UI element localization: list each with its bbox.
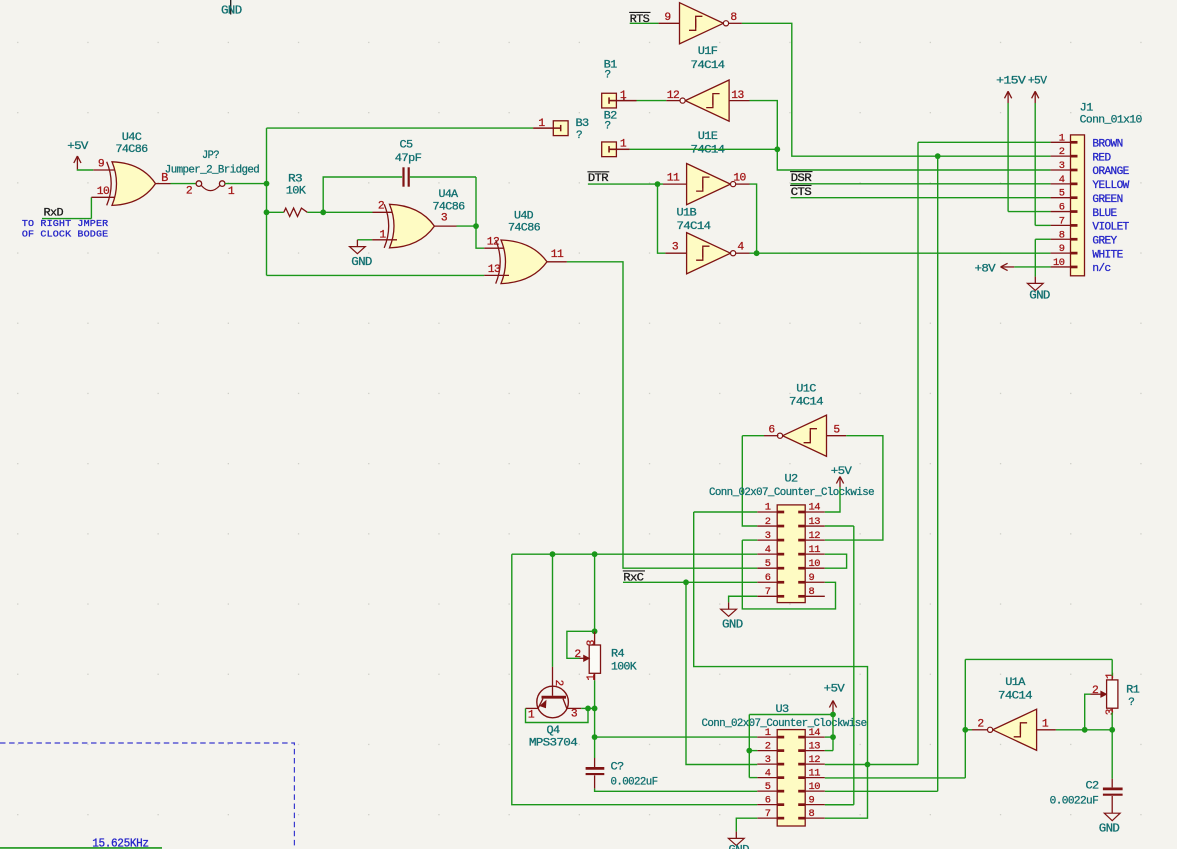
svg-text:?: ? [576, 130, 582, 142]
svg-text:74C86: 74C86 [116, 144, 148, 156]
svg-text:4: 4 [765, 767, 771, 779]
svg-text:10: 10 [733, 173, 746, 185]
svg-text:?: ? [605, 70, 611, 82]
svg-text:C?: C? [611, 761, 624, 773]
svg-text:9: 9 [809, 794, 815, 806]
svg-text:2: 2 [765, 516, 771, 528]
svg-text:+5V: +5V [831, 466, 852, 478]
svg-text:3: 3 [441, 213, 448, 225]
svg-text:U4D: U4D [514, 210, 534, 222]
svg-text:?: ? [605, 120, 611, 132]
svg-text:Conn_02x07_Counter_Clockwise: Conn_02x07_Counter_Clockwise [702, 718, 867, 730]
svg-text:JP?: JP? [202, 150, 219, 162]
svg-text:3: 3 [1105, 709, 1117, 715]
svg-text:RED: RED [1092, 152, 1111, 164]
svg-text:MPS3704: MPS3704 [529, 737, 578, 749]
svg-text:3: 3 [571, 709, 578, 721]
svg-text:9: 9 [98, 159, 104, 171]
svg-text:ORANGE: ORANGE [1092, 166, 1129, 178]
svg-text:3: 3 [765, 530, 771, 542]
svg-text:J1: J1 [1080, 102, 1094, 114]
svg-text:GND: GND [722, 618, 743, 631]
svg-text:2: 2 [378, 201, 384, 213]
svg-text:2: 2 [765, 740, 771, 752]
svg-text:3: 3 [672, 242, 679, 254]
svg-text:3: 3 [765, 754, 771, 766]
svg-text:2: 2 [1092, 685, 1098, 697]
svg-text:U2: U2 [785, 473, 798, 485]
svg-text:2: 2 [186, 185, 192, 197]
svg-text:OF CLOCK BODGE: OF CLOCK BODGE [22, 228, 109, 239]
svg-text:Conn_01x10: Conn_01x10 [1080, 115, 1142, 127]
svg-text:R4: R4 [611, 648, 625, 660]
svg-text:YELLOW: YELLOW [1092, 180, 1129, 192]
svg-text:U1C: U1C [796, 383, 817, 395]
svg-text:GREEN: GREEN [1092, 194, 1122, 206]
svg-text:R1: R1 [1126, 684, 1140, 696]
svg-text:WHITE: WHITE [1092, 249, 1123, 261]
svg-text:7: 7 [765, 586, 771, 598]
svg-text:U1E: U1E [698, 131, 719, 143]
svg-text:1: 1 [765, 502, 771, 514]
svg-text:74C86: 74C86 [433, 201, 465, 213]
svg-text:U1B: U1B [677, 208, 698, 220]
svg-text:GND: GND [351, 256, 372, 269]
svg-text:1: 1 [379, 229, 386, 241]
svg-text:VIOLET: VIOLET [1092, 222, 1129, 234]
svg-text:BROWN: BROWN [1092, 139, 1122, 151]
svg-text:8: 8 [809, 808, 815, 820]
svg-text:11: 11 [667, 173, 680, 185]
svg-text:4: 4 [737, 242, 744, 254]
svg-text:1: 1 [620, 90, 627, 102]
svg-text:74C14: 74C14 [789, 396, 824, 408]
svg-text:C2: C2 [1086, 780, 1099, 792]
svg-text:5: 5 [1059, 188, 1065, 200]
svg-text:+5V: +5V [1028, 75, 1047, 87]
svg-text:7: 7 [1059, 215, 1065, 227]
svg-text:U4A: U4A [439, 189, 459, 201]
svg-text:74C86: 74C86 [508, 222, 540, 234]
svg-text:U1F: U1F [698, 46, 718, 58]
svg-text:GND: GND [728, 844, 749, 849]
svg-text:U4C: U4C [122, 132, 143, 144]
svg-text:12: 12 [667, 90, 680, 102]
svg-text:47pF: 47pF [395, 153, 422, 165]
svg-text:11: 11 [809, 544, 821, 556]
svg-text:2: 2 [574, 649, 580, 661]
svg-text:GND: GND [221, 4, 242, 17]
svg-text:+8V: +8V [975, 263, 996, 275]
svg-text:6: 6 [765, 794, 771, 806]
svg-text:2: 2 [977, 718, 983, 730]
svg-text:1: 1 [1105, 672, 1117, 679]
svg-text:4: 4 [1059, 174, 1065, 186]
svg-text:74C14: 74C14 [691, 60, 726, 72]
svg-text:9: 9 [809, 572, 815, 584]
svg-text:11: 11 [551, 249, 564, 261]
svg-text:1: 1 [1042, 718, 1049, 730]
svg-text:12: 12 [809, 530, 821, 542]
svg-text:GREY: GREY [1092, 235, 1117, 247]
svg-text:3: 3 [1059, 160, 1065, 172]
svg-text:10: 10 [809, 781, 821, 793]
svg-text:10: 10 [1053, 257, 1065, 269]
svg-text:10K: 10K [286, 186, 307, 198]
svg-text:14: 14 [809, 502, 821, 514]
svg-text:9: 9 [664, 12, 670, 24]
svg-text:C5: C5 [400, 140, 413, 152]
svg-text:10: 10 [97, 186, 110, 198]
svg-text:DTR: DTR [588, 173, 609, 185]
svg-text:1: 1 [586, 674, 598, 681]
svg-text:0.0022uF: 0.0022uF [611, 776, 658, 788]
svg-text:11: 11 [809, 767, 821, 779]
svg-text:RTS: RTS [630, 14, 651, 26]
svg-text:9: 9 [1059, 243, 1065, 255]
svg-text:74C14: 74C14 [998, 691, 1033, 703]
svg-text:6: 6 [1059, 202, 1065, 214]
svg-text:1: 1 [228, 186, 235, 198]
svg-text:8: 8 [1059, 229, 1065, 241]
svg-text:13: 13 [809, 516, 821, 528]
svg-text:5: 5 [833, 424, 840, 436]
svg-text:1: 1 [1059, 132, 1065, 144]
svg-text:2: 2 [1059, 146, 1065, 158]
svg-text:13: 13 [809, 740, 821, 752]
svg-text:+15V: +15V [996, 75, 1026, 87]
svg-text:5: 5 [765, 558, 771, 570]
svg-text:12: 12 [809, 754, 821, 766]
svg-text:74C14: 74C14 [691, 145, 726, 157]
svg-text:2: 2 [552, 680, 564, 686]
svg-text:74C14: 74C14 [677, 221, 712, 233]
svg-text:Conn_02x07_Counter_Clockwise: Conn_02x07_Counter_Clockwise [709, 487, 874, 499]
svg-text:?: ? [1128, 697, 1134, 709]
svg-text:+5V: +5V [824, 683, 845, 695]
svg-text:7: 7 [765, 808, 771, 820]
svg-text:GND: GND [1099, 822, 1120, 835]
svg-text:Jumper_2_Bridged: Jumper_2_Bridged [165, 164, 259, 176]
svg-text:6: 6 [765, 572, 771, 584]
svg-text:Q4: Q4 [547, 725, 561, 737]
svg-text:6: 6 [768, 424, 775, 436]
svg-text:U1A: U1A [1005, 677, 1026, 689]
svg-text:8: 8 [730, 12, 737, 24]
svg-text:1: 1 [620, 138, 627, 150]
svg-text:13: 13 [488, 264, 501, 276]
svg-text:10: 10 [809, 558, 821, 570]
svg-text:B3: B3 [576, 118, 589, 130]
svg-text:4: 4 [765, 544, 771, 556]
svg-text:8: 8 [809, 586, 815, 598]
svg-text:1: 1 [538, 118, 545, 130]
svg-text:GND: GND [1029, 289, 1050, 302]
svg-text:100K: 100K [611, 661, 637, 673]
svg-text:BLUE: BLUE [1092, 208, 1117, 220]
svg-text:1: 1 [528, 709, 535, 721]
svg-text:5: 5 [765, 781, 771, 793]
svg-text:+5V: +5V [67, 141, 88, 153]
svg-text:n/c: n/c [1092, 263, 1110, 275]
svg-text:0.0022uF: 0.0022uF [1050, 796, 1099, 808]
svg-text:R3: R3 [288, 173, 302, 185]
